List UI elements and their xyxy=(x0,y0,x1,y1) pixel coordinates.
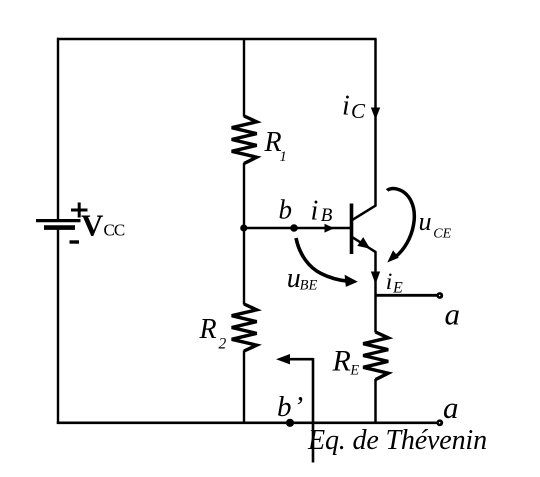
svg-text:a: a xyxy=(443,390,459,425)
arrow Thevenin pointer xyxy=(276,354,313,364)
svg-text:i: i xyxy=(386,269,393,295)
wire R2 bottom lead xyxy=(243,351,245,423)
wire Thevenin vertical xyxy=(312,358,315,463)
arrow iB xyxy=(325,224,335,233)
svg-text:a: a xyxy=(445,296,461,331)
arc uBE xyxy=(296,238,358,287)
terminal a lower xyxy=(436,419,443,426)
svg-text:R: R xyxy=(199,314,217,345)
svg-text:1: 1 xyxy=(280,149,287,165)
svg-text:CE: CE xyxy=(433,226,451,241)
node b dot xyxy=(290,224,298,232)
svg-text:CC: CC xyxy=(104,221,125,240)
terminal a upper xyxy=(436,292,443,299)
wire emitter xyxy=(374,252,377,333)
svg-text:u: u xyxy=(419,207,432,236)
wire collector xyxy=(374,39,377,206)
node b-prime dot xyxy=(286,419,294,427)
resistor R1 xyxy=(232,116,257,164)
label iC xyxy=(342,91,366,124)
wire R1 top lead xyxy=(243,39,245,117)
arc uCE xyxy=(387,189,414,263)
wire to terminal a upper xyxy=(376,294,438,297)
transistor Q1 xyxy=(352,204,377,255)
svg-text:V: V xyxy=(81,208,104,243)
label iE xyxy=(386,269,403,297)
svg-text:b’: b’ xyxy=(277,391,303,423)
battery minus sign xyxy=(70,240,80,243)
svg-text:Eq. de Thévenin: Eq. de Thévenin xyxy=(307,425,487,456)
wire RE bottom lead xyxy=(374,379,377,423)
svg-text:E: E xyxy=(349,363,359,379)
svg-text:2: 2 xyxy=(219,335,227,352)
label R1 xyxy=(264,127,287,165)
battery V1 Vcc source xyxy=(36,221,81,228)
svg-text:R: R xyxy=(332,345,351,378)
resistor RE xyxy=(363,332,388,380)
wire bottom rail xyxy=(57,421,438,424)
label R2 xyxy=(199,314,227,352)
svg-text:BE: BE xyxy=(300,278,318,294)
wire base xyxy=(244,227,352,230)
battery plus sign xyxy=(71,203,88,218)
junction dot divider-base xyxy=(240,224,247,231)
svg-text:B: B xyxy=(321,205,333,226)
svg-text:C: C xyxy=(351,99,366,123)
svg-text:b: b xyxy=(279,194,293,224)
label RE xyxy=(332,345,360,379)
wire top rail xyxy=(57,38,377,40)
wire left rail upper xyxy=(57,38,59,220)
resistor R2 xyxy=(232,304,257,351)
arrow iC xyxy=(371,108,380,120)
wire left rail lower xyxy=(57,228,59,424)
label uBE xyxy=(287,263,318,294)
label Vcc xyxy=(81,208,125,243)
svg-text:i: i xyxy=(342,91,350,122)
wire R1 to R2 lead xyxy=(243,163,245,305)
label iB xyxy=(311,195,333,226)
arrow iE xyxy=(371,272,380,285)
label uCE xyxy=(419,207,452,241)
svg-text:i: i xyxy=(311,195,319,226)
